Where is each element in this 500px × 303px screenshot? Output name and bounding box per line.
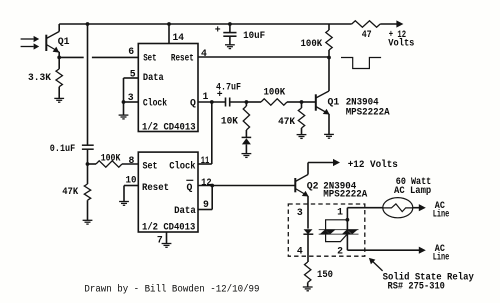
svg-text:12: 12 (201, 177, 212, 188)
svg-text:1/2 CD4013: 1/2 CD4013 (142, 222, 195, 233)
capacitor C2 10uF (229, 24, 231, 32)
svg-text:Drawn by - Bill Bowden -12/10/: Drawn by - Bill Bowden -12/10/99 (84, 284, 259, 295)
wire pin3 Clock (124, 101, 139, 103)
svg-text:Q: Q (190, 97, 196, 108)
node base-47K junction (300, 100, 304, 104)
wire pin2 AC line (347, 249, 419, 251)
svg-text:47K: 47K (278, 116, 295, 127)
svg-text:Line: Line (433, 208, 450, 219)
svg-text:9: 9 (203, 199, 209, 210)
svg-text:Clock: Clock (143, 97, 167, 108)
ground Q1 emitter (324, 134, 334, 138)
ground 47K left (83, 220, 93, 224)
resistor R9 150 (307, 261, 309, 263)
op-amp U1 1/2 CD4013 body (138, 44, 198, 132)
svg-text:8: 8 (129, 155, 135, 166)
capacitor C1 0.1uF (82, 144, 94, 146)
wire pin12 Qbar (198, 185, 295, 187)
svg-text:AC Lamp: AC Lamp (394, 185, 431, 196)
svg-text:10uF: 10uF (243, 30, 265, 41)
svg-text:11: 11 (201, 155, 210, 166)
svg-text:47K: 47K (62, 186, 78, 197)
svg-text:Data: Data (174, 205, 196, 216)
svg-text:Q1: Q1 (58, 36, 70, 47)
svg-text:150: 150 (317, 269, 333, 280)
ground 3.3K (54, 98, 64, 102)
svg-text:1/2 CD4013: 1/2 CD4013 (142, 121, 196, 132)
node pin3-pin5 junction (122, 100, 126, 104)
node rail-0.1uF junction (86, 22, 90, 26)
ground 10K diode (242, 154, 252, 158)
wire pin9 Data link (198, 209, 212, 211)
wire +12V Q2 (308, 162, 334, 164)
wire cap to 10K node (230, 101, 247, 103)
node pin12-pin9 junction (210, 184, 214, 188)
node Q-clock2 junction (210, 100, 214, 104)
resistor R3 47 (329, 23, 352, 25)
svg-text:Set: Set (143, 160, 158, 171)
svg-text:RS# 275-310: RS# 275-310 (388, 280, 446, 291)
svg-text:Q1: Q1 (328, 97, 340, 108)
resistor R2 100K vertical (328, 24, 330, 30)
svg-text:1: 1 (337, 207, 343, 218)
svg-text:Set: Set (143, 53, 156, 64)
pulse waveform symbol (341, 58, 381, 69)
svg-text:+: + (217, 89, 223, 100)
diode D1 (242, 136, 252, 138)
resistor R1 3.3K (58, 57, 60, 69)
svg-text:2: 2 (337, 245, 343, 256)
ground 150 (303, 287, 313, 291)
node Q1 emitter junction (57, 56, 61, 60)
svg-text:MPS2222A: MPS2222A (346, 107, 390, 118)
svg-text:100K: 100K (264, 87, 286, 98)
svg-text:5: 5 (130, 68, 136, 79)
ground clock pins (119, 115, 129, 119)
svg-text:100K: 100K (101, 152, 121, 163)
callout arrow solid state relay (372, 260, 383, 271)
arrow AC line bottom (419, 247, 426, 254)
lamp 60W AC (383, 198, 413, 218)
ground 47K mid (297, 135, 307, 139)
node triac gate junction (346, 218, 350, 222)
ground pin7 (162, 244, 172, 248)
svg-text:Q2: Q2 (307, 180, 319, 191)
wire Q1 emitter to Set pin6 (left of crossover) (59, 56, 83, 58)
light arrow 2 (21, 46, 34, 48)
wire pin11 clock link (198, 163, 212, 165)
svg-text:4: 4 (297, 246, 303, 257)
svg-text:Volts: Volts (388, 37, 414, 48)
svg-text:14: 14 (173, 32, 185, 43)
ground pin10 (119, 202, 129, 206)
wire pin3 to ground (123, 102, 125, 115)
svg-text:Line: Line (433, 251, 450, 262)
arrow AC line top (419, 204, 426, 211)
wire Set pin6 (right of crossover) (92, 56, 138, 58)
triac triangles (320, 230, 358, 235)
wire triac gate (326, 220, 348, 242)
capacitor C3 4.7uF (225, 98, 227, 107)
wire triac main vertical (346, 208, 348, 251)
svg-text:Reset: Reset (142, 182, 169, 193)
svg-text:Data: Data (143, 72, 164, 83)
svg-text:1: 1 (203, 91, 209, 102)
arrow +12V top (396, 20, 403, 27)
transistor Q1 phototransistor (46, 24, 59, 57)
svg-text:Reset: Reset (171, 53, 194, 64)
svg-text:0.1uF: 0.1uF (50, 143, 75, 154)
svg-text:4: 4 (201, 48, 207, 59)
svg-text:Q: Q (187, 182, 193, 193)
op-amp U2 1/2 CD4013 body (138, 152, 198, 232)
svg-text:3.3K: 3.3K (28, 72, 51, 83)
triac rails (319, 229, 359, 231)
node 0.1uF-100K-47K junction (86, 162, 90, 166)
wire rail to 0.1uF (87, 24, 89, 145)
wire pin1 to lamp (347, 207, 383, 209)
svg-text:3: 3 (128, 92, 134, 103)
ground 10uF (225, 45, 235, 49)
light arrow 1 (21, 38, 34, 40)
resistor R7 100K set (88, 163, 97, 165)
svg-text:10: 10 (126, 175, 137, 186)
resistor R4 10K (245, 102, 247, 106)
wire pin10 Reset (124, 185, 138, 187)
node reset-collector junction (327, 56, 331, 60)
node rail-pin14 junction (167, 22, 171, 26)
resistor R5 100K horizontal (246, 101, 261, 103)
node rail-10uF junction (228, 22, 232, 26)
wire Reset pin4 (198, 56, 329, 58)
arrow +12V Q2 (333, 159, 340, 166)
solid state relay outline (288, 204, 365, 256)
svg-text:Clock: Clock (169, 160, 195, 171)
transistor Q1 2N3904 (316, 58, 330, 135)
svg-text:6: 6 (128, 46, 134, 57)
wire Q pin1 (198, 101, 226, 103)
wire lamp to AC line (413, 207, 420, 209)
svg-text:+: + (215, 25, 221, 36)
wire top +12V rail (59, 23, 329, 25)
wire pin5 Data (124, 77, 139, 79)
svg-text:+12 Volts: +12 Volts (348, 159, 398, 170)
svg-text:10K: 10K (221, 116, 238, 127)
wire pin14 (168, 24, 170, 44)
diode LED relay input (304, 229, 313, 234)
svg-text:MPS2222A: MPS2222A (323, 188, 367, 199)
svg-text:3: 3 (297, 207, 303, 218)
wire pin7 (166, 232, 168, 243)
resistor R6 47K (301, 102, 303, 108)
transistor Q2 2N3904 (295, 163, 308, 229)
svg-text:47: 47 (362, 29, 372, 40)
wire to Q1 base (302, 101, 316, 103)
svg-text:100K: 100K (301, 38, 323, 49)
node 10K junction (245, 100, 249, 104)
resistor R8 47K left (87, 164, 89, 184)
